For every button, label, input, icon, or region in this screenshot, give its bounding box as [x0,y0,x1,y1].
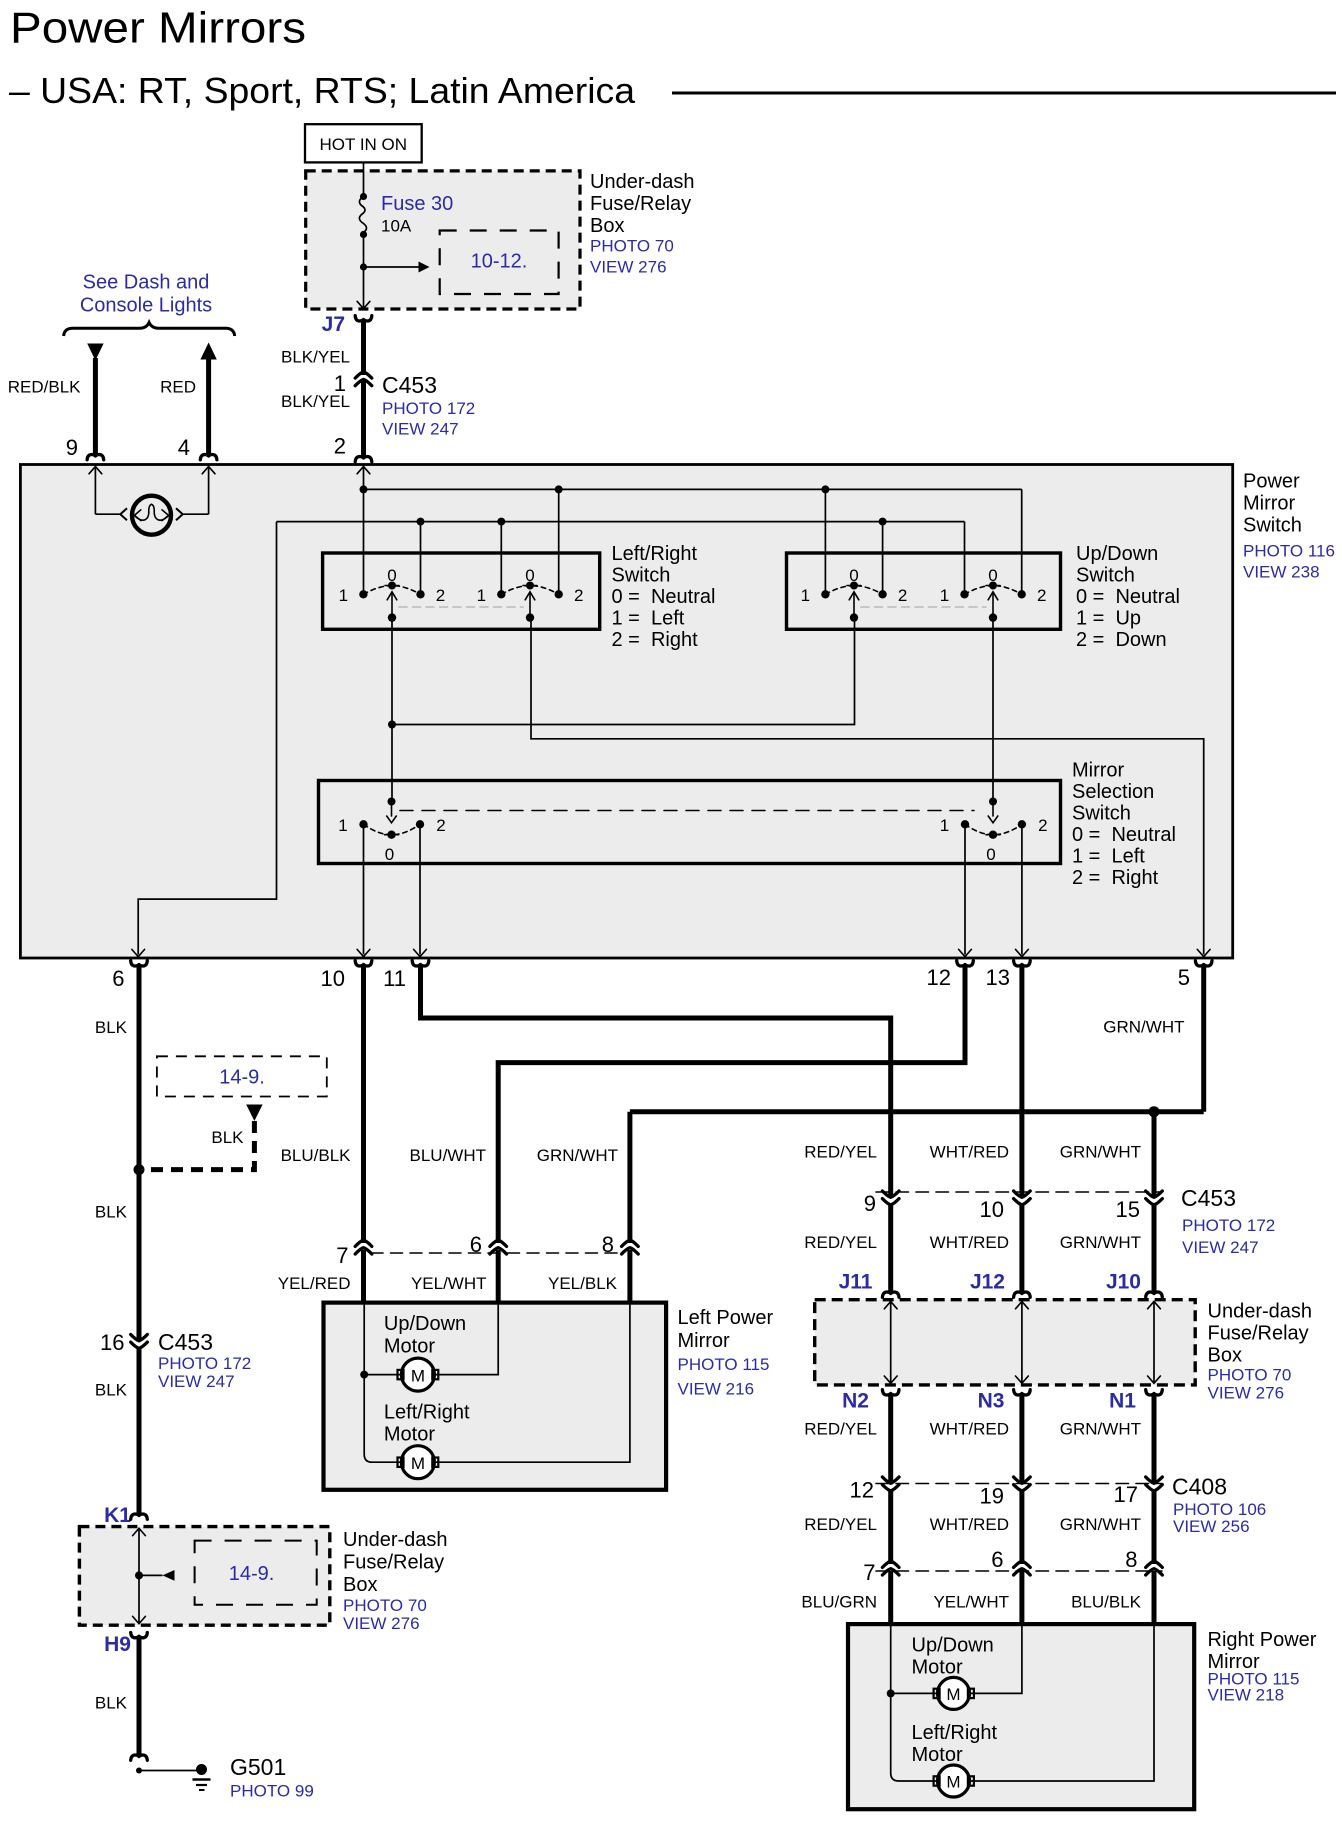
svg-text:WHT/RED: WHT/RED [930,1233,1009,1252]
svg-text:RED/YEL: RED/YEL [804,1233,877,1252]
svg-text:VIEW 216: VIEW 216 [678,1380,755,1399]
node pin2 branch [360,485,368,493]
wire inside lower left box [138,1529,140,1624]
svg-text:4: 4 [178,435,190,460]
svg-text:PHOTO 172: PHOTO 172 [1182,1216,1275,1235]
svg-text:Switch: Switch [1243,515,1302,537]
mechanical link L/R switch [399,606,523,608]
svg-text:1: 1 [801,586,810,605]
wire up/down motor right to pin6 [435,1303,499,1375]
wire GRN/WHT pin5 down [1201,966,1206,1112]
wire pin7 inside right mirror [890,1624,892,1693]
svg-text:Box: Box [590,215,624,237]
connector pin 10 exit cup [355,961,372,966]
wire sel contact2R to pin 13 [1021,825,1023,955]
connector left mirror pin 6 [490,1240,507,1246]
svg-text:VIEW 256: VIEW 256 [1173,1517,1250,1536]
left/right switch box [323,553,600,629]
wire to G501 [139,1770,198,1772]
svg-text:YEL/WHT: YEL/WHT [933,1593,1009,1612]
svg-text:M: M [946,1685,960,1704]
wire LR g2 common to pin 5 [531,618,1204,955]
label Left/Right Switch legend [612,543,716,651]
lamp right chevron [176,508,183,520]
node branch 420 [417,518,425,526]
label Mirror Selection Switch legend [1072,760,1176,890]
svg-text:Switch: Switch [1076,565,1135,587]
connector C408 pin 19 [1014,1477,1031,1483]
arrow fuse box exit down [357,301,370,308]
wire sel contact1R to pin 12 [964,825,966,955]
dashed connector line C408 [876,1483,1162,1485]
svg-text:Box: Box [1208,1345,1242,1367]
svg-text:YEL/RED: YEL/RED [278,1274,351,1293]
wire GRN/WHT N1 down [1152,1395,1157,1482]
svg-text:Under-dash: Under-dash [1208,1301,1313,1323]
arrow internal down x1021.9 [1016,1376,1029,1383]
svg-text:YEL/BLK: YEL/BLK [548,1274,618,1293]
svg-text:BLK: BLK [95,1694,128,1713]
connector pin 12 exit cup [957,961,974,966]
svg-text:Power: Power [1243,471,1300,493]
svg-text:Power Mirrors: Power Mirrors [10,5,306,53]
svg-text:8: 8 [1125,1547,1137,1572]
svg-text:7: 7 [336,1243,348,1268]
svg-text:19: 19 [980,1484,1004,1509]
wire ground bus to pin 6 [138,522,276,955]
svg-text:Under-dash: Under-dash [590,171,695,193]
svg-text:10A: 10A [381,217,412,236]
svg-text:0: 0 [525,566,534,585]
svg-text:PHOTO 70: PHOTO 70 [590,237,674,256]
connector C453 pin 10 [1014,1191,1031,1197]
connector C453 pin 15 [1146,1191,1163,1197]
svg-text:Left/Right: Left/Right [612,543,698,565]
arrow internal down x890.7 [884,1376,897,1383]
wire GRN/WHT down x1154 [1152,1112,1157,1196]
arrow from console lights [200,343,216,360]
svg-text:Motor: Motor [384,1336,435,1358]
pin 4 arrow [202,467,215,474]
switch contact U/D group 1 [801,566,908,622]
connector J10 [1146,1292,1163,1297]
svg-text:VIEW 218: VIEW 218 [1208,1686,1285,1705]
svg-text:VIEW 247: VIEW 247 [1182,1238,1259,1257]
svg-text:11: 11 [383,966,406,991]
connector pin 5 exit cup [1195,961,1212,966]
wire to UD g1 contact2 [882,522,884,595]
connector N1 [1146,1390,1163,1395]
svg-text:Up/Down: Up/Down [1076,543,1158,565]
fuse Fuse30 10A symbol [359,197,367,239]
svg-text:M: M [411,1454,425,1473]
svg-text:1 = Left: 1 = Left [612,608,685,630]
node branch 558 [555,485,563,493]
svg-text:– USA: RT, Sport, RTS; Latin A: – USA: RT, Sport, RTS; Latin America [9,70,636,111]
arrow K1 internal up [133,1528,146,1535]
svg-text:Fuse/Relay: Fuse/Relay [343,1552,444,1574]
svg-text:Mirror: Mirror [678,1330,731,1352]
wire WHT/RED pin13 down [1019,966,1024,1196]
node ground stub [136,1768,142,1774]
connector C453 pins 1-2 [355,372,372,378]
svg-text:15: 15 [1116,1197,1140,1222]
svg-text:17: 17 [1114,1482,1138,1507]
svg-text:BLK/YEL: BLK/YEL [281,348,350,367]
svg-text:BLU/WHT: BLU/WHT [410,1146,487,1165]
connector pin 9 entry cup [87,454,104,459]
svg-text:GRN/WHT: GRN/WHT [1103,1018,1184,1037]
wire BLK H9 to ground [137,1638,142,1755]
right power mirror box [848,1624,1194,1809]
selection switch contact group left [338,798,445,865]
wire left/right motor right to pin8 (right mirror) [970,1624,1154,1781]
svg-text:2: 2 [436,586,445,605]
svg-text:PHOTO 116: PHOTO 116 [1243,542,1335,561]
label Under-dash Fuse/Relay Box (lower left) [343,1529,448,1633]
svg-text:Fuse 30: Fuse 30 [381,193,453,215]
motor M up/down (left mirror) [398,1358,439,1391]
svg-text:Motor: Motor [384,1424,435,1446]
svg-text:2: 2 [574,586,583,605]
label C453 [382,372,475,439]
wire UD g1 common link [392,618,855,725]
svg-text:Left/Right: Left/Right [912,1722,998,1744]
svg-text:6: 6 [991,1547,1003,1572]
node left mirror junction [360,1371,368,1379]
wire pin2 to LR contact1 [363,466,365,594]
wire pin7 inside left mirror [363,1303,365,1375]
wire bus y489 [364,488,1022,490]
motor M left/right (left mirror) [398,1446,439,1479]
svg-text:1: 1 [477,586,486,605]
svg-text:VIEW 276: VIEW 276 [590,258,667,277]
svg-text:M: M [411,1366,425,1385]
connector J12 [1014,1292,1031,1297]
svg-text:PHOTO 99: PHOTO 99 [230,1782,314,1801]
wire inside lower right box x890.7 [890,1302,892,1384]
svg-text:BLK: BLK [95,1203,128,1222]
label Left/Right Motor (left mirror) [384,1402,470,1446]
svg-text:Mirror: Mirror [1072,760,1125,782]
svg-text:0: 0 [385,845,394,864]
wire to 14-9 arrow [139,1574,163,1576]
node 14-9 reference box 2 [195,1541,317,1605]
node fuse branch junction [360,263,367,270]
svg-text:1: 1 [940,586,949,605]
label Left Power Mirror [678,1307,774,1399]
svg-text:BLU/BLK: BLU/BLK [1071,1593,1142,1612]
svg-text:0: 0 [849,566,858,585]
svg-text:PHOTO 70: PHOTO 70 [1208,1366,1292,1385]
wire to UD g2 contact1 [964,522,966,595]
svg-text:0: 0 [986,845,995,864]
node fuse top [360,193,367,200]
svg-text:N2: N2 [842,1390,869,1413]
connector pin 13 exit cup [1014,961,1031,966]
svg-text:K1: K1 [104,1504,131,1527]
svg-text:6: 6 [470,1232,482,1257]
connector pin 11 exit cup [412,961,429,966]
svg-text:WHT/RED: WHT/RED [930,1143,1009,1162]
svg-text:Under-dash: Under-dash [343,1529,448,1551]
arrow from 14-9 (left) [163,1570,175,1581]
wire WHT/RED N3 down [1019,1395,1024,1482]
wire to LR g1 contact2 [420,522,422,595]
arrow internal up x890.7 [884,1302,897,1309]
connector J7 [355,316,372,321]
svg-text:RED/YEL: RED/YEL [804,1143,877,1162]
svg-text:J10: J10 [1106,1271,1141,1294]
connector left mirror pin 8 [622,1240,639,1246]
connector C408 pin 12 [882,1477,899,1483]
label Up/Down Motor (right mirror) [912,1635,994,1679]
svg-text:RED/YEL: RED/YEL [804,1420,877,1439]
header rule line [672,92,1336,95]
svg-text:GRN/WHT: GRN/WHT [1060,1143,1141,1162]
svg-text:14-9.: 14-9. [219,1067,265,1089]
wire BLK/YEL J7 to C453 [361,321,366,375]
connector J11 [882,1292,899,1297]
svg-text:2 = Down: 2 = Down [1076,629,1167,651]
label C453 right [1181,1185,1275,1257]
svg-text:BLK: BLK [95,1381,128,1400]
svg-text:GRN/WHT: GRN/WHT [537,1146,618,1165]
svg-text:14-9.: 14-9. [229,1563,275,1585]
wire sel contact1L to pin 10 [363,824,365,954]
wire branch to 10-12 [364,266,419,268]
label C453 pin16 [158,1329,251,1391]
arrow from 14-9 [246,1105,262,1122]
svg-text:16: 16 [100,1330,124,1355]
wire RED pin 4 [206,358,211,455]
svg-text:GRN/WHT: GRN/WHT [1060,1515,1141,1534]
svg-text:PHOTO 70: PHOTO 70 [343,1596,427,1615]
svg-text:Up/Down: Up/Down [384,1313,466,1335]
svg-text:1: 1 [339,586,348,605]
power mirror switch box [20,465,1232,959]
wire to LR g2 contact2 [558,489,560,594]
arrow to dash lights [87,344,103,361]
svg-text:Fuse/Relay: Fuse/Relay [1208,1323,1309,1345]
wire GRN/WHT bus y1112 [630,1109,1204,1114]
label G501 [230,1754,314,1801]
svg-text:YEL/WHT: YEL/WHT [411,1274,487,1293]
node junction BLK [134,1164,145,1175]
svg-text:2: 2 [898,586,907,605]
connector pin 4 entry cup [200,454,217,459]
svg-text:VIEW 247: VIEW 247 [382,420,459,439]
svg-text:2: 2 [436,816,445,835]
under-dash fuse/relay box (lower right) [815,1300,1195,1385]
svg-text:RED/YEL: RED/YEL [804,1515,877,1534]
wire BLK to K1 [137,1347,142,1514]
wire to UD g1 contact1 [824,489,826,594]
svg-text:Right Power: Right Power [1208,1629,1317,1651]
svg-text:2: 2 [334,434,346,459]
svg-text:Motor: Motor [912,1744,963,1766]
svg-text:9: 9 [864,1191,876,1216]
wire to LR g2 contact1 [500,522,502,595]
svg-text:Motor: Motor [912,1657,963,1679]
svg-text:BLK/YEL: BLK/YEL [281,392,350,411]
wire inside lower right box x1154 [1153,1302,1155,1384]
wire to up/down motor left (right mirror) [891,1692,937,1694]
wire fuse input [363,171,365,196]
connector K1 [131,1514,148,1519]
svg-text:N1: N1 [1109,1390,1136,1413]
svg-text:12: 12 [927,965,951,990]
svg-text:PHOTO 115: PHOTO 115 [678,1355,770,1374]
svg-text:BLU/BLK: BLU/BLK [281,1146,352,1165]
dashed connector line left mirror [371,1252,622,1254]
svg-text:7: 7 [863,1560,875,1585]
svg-text:Up/Down: Up/Down [912,1635,994,1657]
wire BLU/BLK pin10 down [361,966,366,1244]
note See Dash and Console Lights [80,272,212,317]
wire RED/YEL N2 down [888,1395,893,1482]
mechanical link selection switch [400,810,974,812]
left power mirror box [324,1303,667,1490]
arrow internal down x1154 [1148,1376,1161,1383]
connector C453 pin 9 [882,1191,899,1197]
arrow H9 internal down [133,1616,146,1623]
arrow to 10-12 [419,262,430,273]
label C408 [1172,1474,1266,1537]
svg-text:1 = Up: 1 = Up [1076,608,1141,630]
svg-text:H9: H9 [104,1633,131,1656]
wire BLU/WHT pin12 across [498,966,965,1244]
wire RED/BLK pin 9 [93,358,98,454]
svg-text:0: 0 [988,566,997,585]
svg-text:J11: J11 [839,1271,873,1294]
wire sel contact2L to pin 11 [419,824,421,954]
wire BLK pin6 down [137,966,142,1340]
node right mirror junction [887,1689,895,1697]
svg-text:2: 2 [1037,586,1046,605]
svg-text:9: 9 [66,435,78,460]
label Power Mirror Switch [1243,471,1335,582]
node branch 882 [879,518,887,526]
label Right Power Mirror [1208,1629,1317,1705]
svg-text:10-12.: 10-12. [471,251,528,273]
connector C453 pin 16 [131,1335,148,1341]
up/down switch box [787,553,1061,629]
svg-text:Left/Right: Left/Right [384,1402,470,1424]
dashed connector line C453 right [876,1191,1162,1193]
svg-text:Selection: Selection [1072,781,1154,803]
wire fuse output [363,235,365,309]
svg-text:0: 0 [387,566,396,585]
pin 2 arrow [357,467,370,474]
lamp (illumination bulb) [132,496,171,535]
arrow pin 6 exit [132,949,145,956]
label Left/Right Motor (right mirror) [912,1722,998,1766]
ground G501 [193,1764,211,1790]
arrow internal up x1021.9 [1016,1302,1029,1309]
svg-text:Mirror: Mirror [1243,493,1296,515]
mechanical link U/D switch [861,606,986,608]
svg-text:2: 2 [1038,816,1047,835]
arrow internal up x1154 [1148,1302,1161,1309]
svg-text:GRN/WHT: GRN/WHT [1060,1420,1141,1439]
wire to up/down motor left [364,1374,401,1376]
svg-text:Fuse/Relay: Fuse/Relay [590,193,691,215]
connector right mirror pin 7 [882,1561,899,1567]
motor M up/down (right mirror) [934,1677,974,1709]
svg-text:1 = Left: 1 = Left [1072,846,1145,868]
svg-text:BLU/GRN: BLU/GRN [801,1593,877,1612]
wire BLK/YEL C453 to switch [361,380,366,456]
node branch 825 [821,485,829,493]
label Up/Down Switch legend [1076,543,1180,651]
pin 9 arrow [89,467,102,474]
svg-text:PHOTO 172: PHOTO 172 [158,1354,251,1373]
svg-text:J7: J7 [322,313,345,336]
wire pin9 to lamp [94,466,96,514]
selection switch contact group right [940,798,1048,865]
svg-text:6: 6 [112,966,124,991]
wire bus y521 [277,521,965,523]
connector left mirror pin 7 [355,1240,372,1246]
switch contact U/D group 2 [940,566,1047,622]
lamp left chevron [120,508,127,520]
wire BLK dashed from 14-9 [143,1121,254,1170]
brace [64,323,235,337]
svg-text:M: M [946,1773,960,1792]
node junction y724 [388,721,396,729]
svg-text:HOT IN ON: HOT IN ON [320,135,408,154]
wire up/down motor right to pin6 (right mirror) [970,1624,1022,1693]
svg-text:Box: Box [343,1574,377,1596]
node GRN/WHT junction [1149,1106,1160,1117]
connector C408 pin 17 [1146,1477,1163,1483]
svg-text:0 = Neutral: 0 = Neutral [1072,824,1176,846]
switch contact L/R group 2 [477,566,584,622]
svg-text:13: 13 [986,965,1010,990]
mirror selection switch box [319,781,1061,864]
wire inside lower right box x1021.9 [1021,1302,1023,1384]
svg-text:12: 12 [850,1478,874,1503]
wire lamp to pin4 [184,513,209,515]
under-dash fuse/relay box (lower left) [79,1527,329,1626]
svg-text:0 = Neutral: 0 = Neutral [1076,586,1180,608]
svg-text:8: 8 [602,1232,614,1257]
node 10-12 reference box [440,231,559,295]
motor M left/right (right mirror) [934,1765,974,1797]
svg-text:5: 5 [1178,965,1190,990]
svg-text:N3: N3 [978,1390,1005,1413]
svg-text:0 = Neutral: 0 = Neutral [612,586,716,608]
svg-text:VIEW 238: VIEW 238 [1243,563,1320,582]
wire to UD g2 contact2 [1021,489,1023,594]
connector pin 2 entry cup [355,456,372,461]
svg-text:2 = Right: 2 = Right [612,629,699,651]
svg-text:RED/BLK: RED/BLK [8,378,81,397]
wire UD g2 common down [992,618,994,802]
svg-text:WHT/RED: WHT/RED [930,1515,1009,1534]
svg-text:VIEW 276: VIEW 276 [1208,1384,1285,1403]
wire RED/YEL pin11 across [421,966,891,1196]
svg-text:Console Lights: Console Lights [80,295,212,317]
svg-text:VIEW 247: VIEW 247 [158,1372,235,1391]
svg-text:Switch: Switch [1072,803,1131,825]
connector pin 6 exit cup [131,961,148,966]
wire LR g1 common down [391,618,393,802]
svg-text:Left Power: Left Power [678,1307,774,1329]
label Under-dash Fuse/Relay Box (top) [590,171,695,277]
wire HOT IN ON to fuse box [363,162,365,172]
